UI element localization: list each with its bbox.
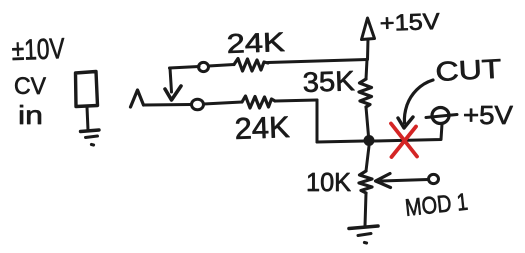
- wire junction to +5V terminal: [374, 124, 442, 141]
- wire upper resistor to +15V rail: [268, 60, 367, 63]
- junction node: [364, 135, 375, 146]
- label 24K lower: [234, 111, 290, 146]
- wire jack stem: [87, 107, 88, 130]
- contact circle (lower): [192, 99, 204, 110]
- annotation arrow CUT: [398, 80, 433, 128]
- resistor 10K (pot element): [359, 171, 372, 193]
- wire 35K to junction: [366, 107, 369, 136]
- svg-text:35K: 35K: [302, 65, 355, 98]
- svg-text:in: in: [18, 100, 43, 130]
- svg-text:+15V: +15V: [379, 8, 441, 36]
- +15V power arrow: [362, 18, 375, 60]
- wire top branch horizontal: [170, 67, 200, 69]
- wire top branch riser: [170, 68, 172, 92]
- wire resistor to corner: [275, 100, 317, 101]
- label CUT: [435, 54, 502, 87]
- svg-text:CUT: CUT: [435, 54, 502, 87]
- wire corner down: [316, 100, 319, 142]
- resistor 24K upper: [234, 59, 268, 72]
- contact circle (upper): [199, 62, 209, 71]
- arrow down onto input wire: [165, 86, 181, 100]
- svg-text:+5V: +5V: [463, 100, 514, 130]
- input signal caret: [131, 90, 144, 107]
- cut mark red X: [391, 124, 417, 158]
- wire input to contact: [144, 103, 192, 107]
- wire contact to resistor: [204, 102, 243, 104]
- svg-text:CV: CV: [14, 73, 46, 100]
- svg-text:10K: 10K: [306, 167, 352, 197]
- wire to junction: [317, 141, 364, 142]
- label 24K upper: [226, 27, 285, 59]
- +5V terminal circle: [426, 108, 457, 124]
- label MOD 1: [404, 189, 469, 222]
- ground (input jack): [81, 130, 100, 145]
- wire 10K to ground: [365, 193, 366, 226]
- label +5V: [463, 100, 514, 130]
- svg-text:±10V: ±10V: [11, 33, 66, 67]
- svg-text:24K: 24K: [226, 27, 285, 59]
- label ±10V: [11, 33, 66, 67]
- wire upper contact to resistor: [209, 65, 235, 67]
- wiper arrow of pot: [376, 174, 429, 188]
- label +15V: [379, 8, 441, 36]
- wire junction to 10K: [366, 146, 369, 171]
- wire rail to 35K: [366, 60, 367, 80]
- label 10K: [306, 167, 352, 197]
- svg-text:24K: 24K: [234, 111, 290, 146]
- label 35K: [302, 65, 355, 98]
- MOD 1 terminal circle: [429, 174, 439, 183]
- ground (bottom): [349, 226, 378, 243]
- CV input jack box: [76, 72, 98, 107]
- label in: [18, 100, 43, 130]
- resistor 35K: [359, 79, 372, 107]
- label CV: [14, 73, 46, 100]
- resistor 24K lower: [242, 96, 275, 108]
